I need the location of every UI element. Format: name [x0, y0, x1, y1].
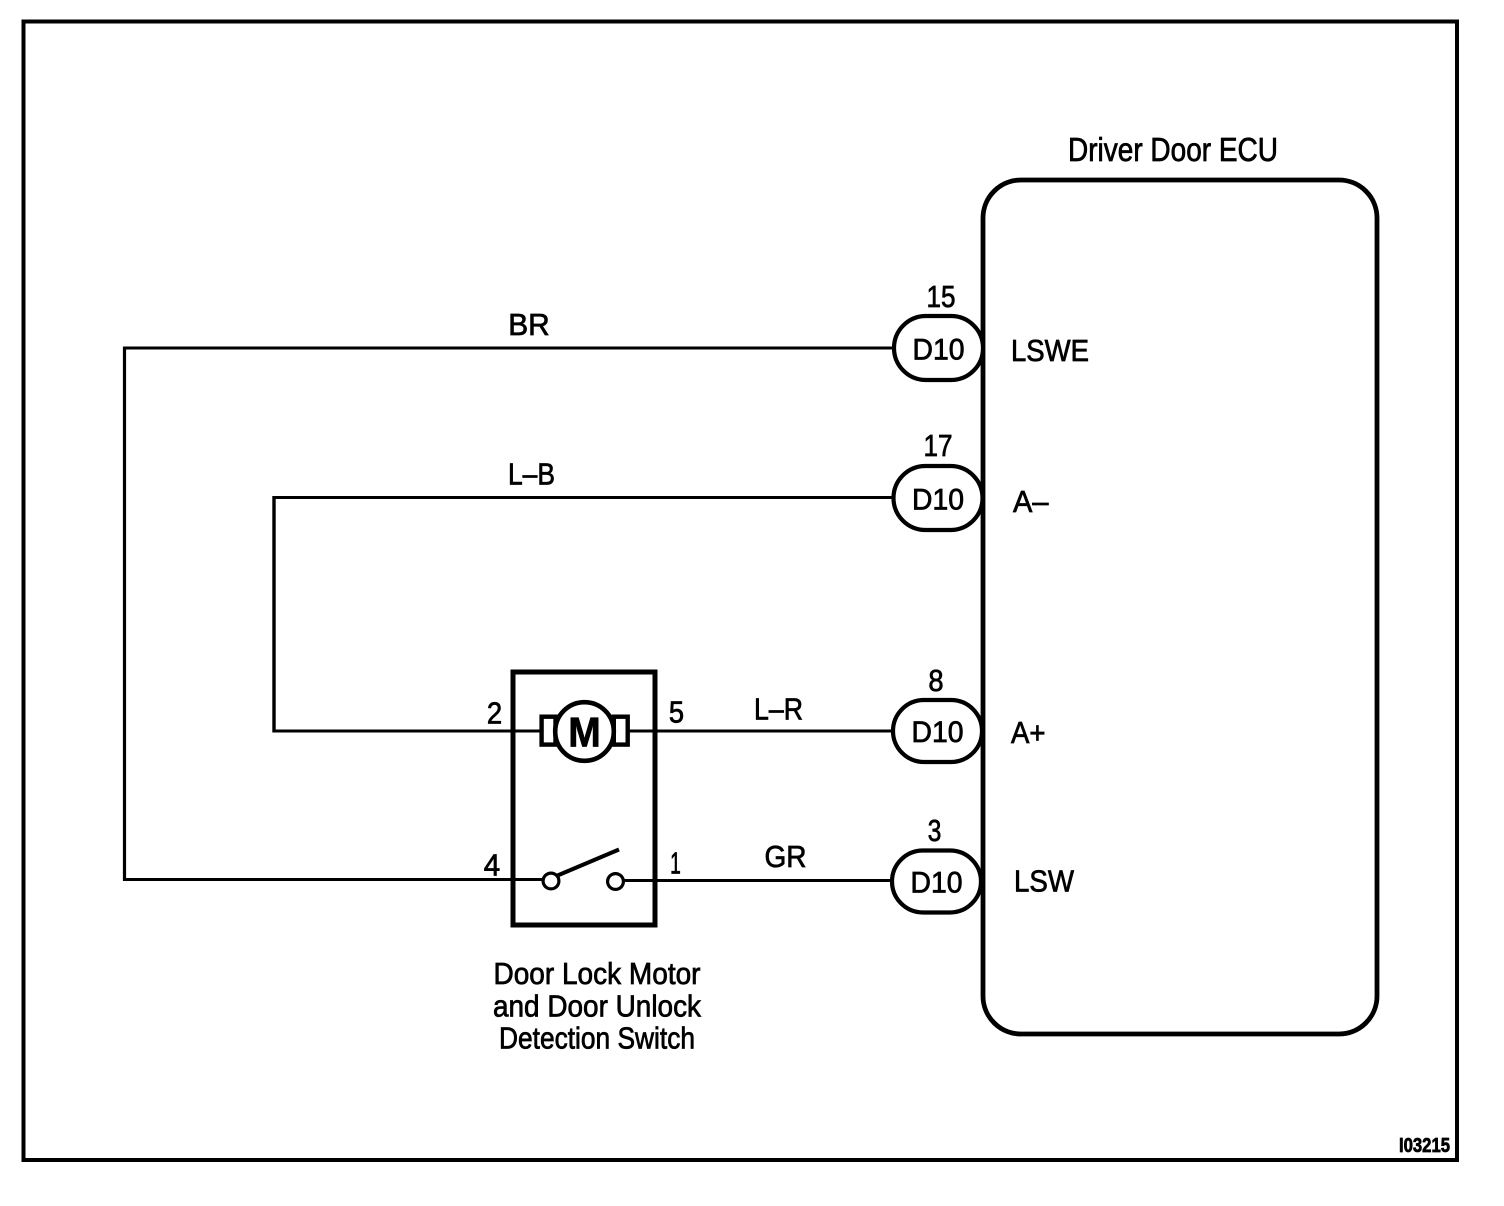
svg-text:4: 4 — [484, 848, 500, 883]
connector D10 pin 8 oval — [893, 700, 982, 762]
connector D10 pin 15 oval — [894, 316, 983, 380]
motor M1 circle — [555, 702, 614, 761]
svg-text:D10: D10 — [912, 716, 964, 749]
switch contact left — [543, 873, 559, 889]
svg-text:A+: A+ — [1011, 715, 1046, 750]
wire BR horizontal — [125, 347, 897, 350]
svg-text:L–R: L–R — [754, 692, 803, 727]
svg-text:15: 15 — [927, 279, 956, 314]
svg-text:LSWE: LSWE — [1011, 333, 1089, 368]
switch blade — [558, 850, 620, 876]
motor brush right — [614, 717, 628, 745]
svg-text:M: M — [568, 709, 601, 756]
svg-text:Detection Switch: Detection Switch — [499, 1021, 695, 1056]
wire to motor pin 2 — [273, 730, 543, 733]
connector D10 pin 3 oval — [892, 851, 981, 913]
wire L-B vertical — [272, 496, 275, 733]
svg-text:Door Lock Motor: Door Lock Motor — [494, 956, 701, 991]
svg-text:GR: GR — [765, 839, 807, 874]
wire BR vertical — [123, 347, 126, 882]
svg-text:LSW: LSW — [1014, 864, 1075, 899]
wire to switch pin 4 — [123, 878, 543, 881]
wire GR switch pin 1 to D10 pin 3 — [622, 879, 894, 882]
svg-text:L–B: L–B — [508, 457, 555, 492]
svg-text:1: 1 — [670, 846, 681, 881]
svg-text:and Door Unlock: and Door Unlock — [493, 989, 701, 1024]
svg-text:I03215: I03215 — [1399, 1135, 1450, 1157]
wire L-B horizontal — [274, 496, 896, 499]
door lock motor and switch box — [513, 672, 655, 925]
svg-text:Driver Door ECU: Driver Door ECU — [1068, 131, 1278, 168]
svg-text:17: 17 — [924, 428, 953, 463]
svg-text:D10: D10 — [911, 867, 963, 900]
svg-text:D10: D10 — [913, 334, 965, 367]
svg-text:A–: A– — [1013, 484, 1049, 519]
svg-text:BR: BR — [508, 307, 550, 342]
wire L-R motor pin 5 to D10 pin 8 — [626, 730, 896, 733]
switch contact right — [608, 874, 624, 890]
svg-text:2: 2 — [487, 696, 502, 731]
ECU U1 Driver Door ECU box — [983, 180, 1377, 1034]
svg-text:3: 3 — [928, 813, 942, 848]
motor brush left — [542, 717, 556, 745]
svg-text:8: 8 — [928, 663, 943, 698]
svg-text:D10: D10 — [912, 484, 964, 517]
svg-text:5: 5 — [669, 695, 684, 730]
connector D10 pin 17 oval — [894, 466, 983, 530]
